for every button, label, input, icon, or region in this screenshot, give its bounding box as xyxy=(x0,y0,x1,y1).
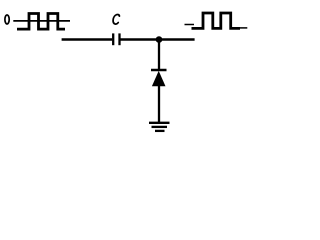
input waveform xyxy=(17,14,65,30)
output waveform fading tail xyxy=(240,27,248,29)
node IN zero-axis line xyxy=(13,20,70,22)
wire (input to capacitor C) xyxy=(62,38,112,41)
wire (junction down to diode) xyxy=(158,40,160,71)
capacitor C xyxy=(112,33,114,45)
ground xyxy=(149,122,170,124)
node junction dot xyxy=(156,36,163,43)
wire (diode to ground) xyxy=(158,86,160,123)
diode VD (anode triangle, pointing up) xyxy=(152,71,166,86)
label C xyxy=(113,14,120,24)
label 0 (input zero level) xyxy=(5,15,9,24)
diode VD (cathode bar) xyxy=(151,69,167,72)
node OUT zero-axis line xyxy=(185,24,195,26)
wire (capacitor to output) xyxy=(121,38,195,41)
output waveform xyxy=(192,13,241,28)
